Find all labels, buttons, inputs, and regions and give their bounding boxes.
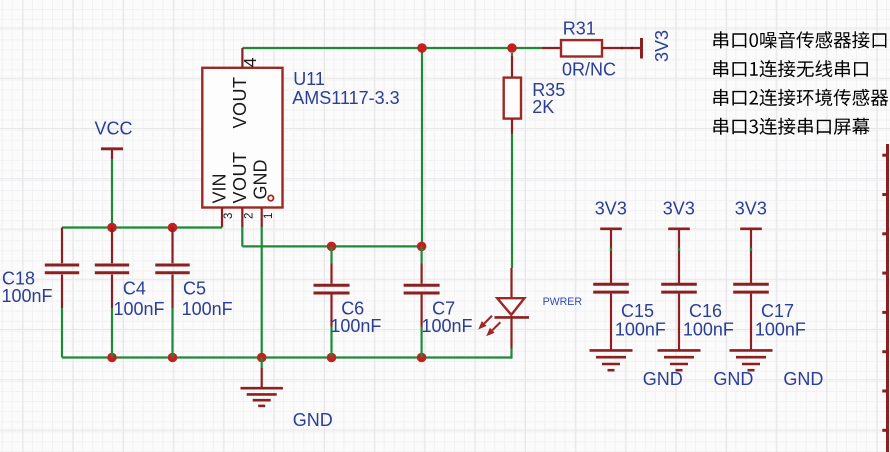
node junction GND rail / C5: [168, 353, 178, 363]
capacitor C15 value label: [615, 320, 666, 340]
LED light arrow 1: [478, 316, 492, 330]
capacitor C4 bottom wire: [111, 308, 113, 358]
wire VOUT horizontal (pin2 to C7): [242, 245, 421, 247]
capacitor C7 top wire: [421, 246, 423, 263]
resistor R35 reference label: [532, 80, 565, 100]
svg-text:100nF: 100nF: [683, 320, 734, 340]
connector body edge (right, partial): [882, 144, 887, 452]
capacitor C4 plates: [95, 265, 129, 273]
U11 reference designator: [293, 69, 325, 89]
resistor R31 left lead: [542, 47, 561, 49]
capacitor C4 value label: [114, 299, 165, 319]
wire input rail (VCC caps top): [62, 226, 222, 228]
node junction GND rail / C7: [417, 353, 427, 363]
svg-text:3V3: 3V3: [663, 199, 695, 219]
node junction input rail / C5: [168, 223, 178, 233]
node junction GND rail / C4: [107, 353, 117, 363]
node junction GND rail / C6: [327, 353, 337, 363]
net label GND (main): [293, 410, 333, 430]
capacitor C5 bottom lead: [171, 275, 173, 308]
svg-text:AMS1117-3.3: AMS1117-3.3: [292, 88, 399, 108]
U11 pin 3 number: [223, 213, 235, 219]
wire top 3V3 rail: [242, 47, 542, 49]
resistor R31 reference label: [563, 19, 596, 39]
capacitor C6 bottom wire: [330, 327, 332, 358]
capacitor C7 top lead: [421, 264, 423, 284]
capacitor C5 top lead: [171, 228, 173, 264]
capacitor C4 reference label: [123, 279, 146, 299]
LED triangle: [497, 298, 524, 315]
svg-text:100nF: 100nF: [114, 299, 165, 319]
net label 3V3 (C15): [595, 199, 627, 219]
node junction VOUT wire / C7: [417, 242, 427, 252]
svg-text:GND: GND: [293, 410, 333, 430]
power symbol 3V3 bar (C16): [668, 228, 690, 231]
svg-text:C17: C17: [761, 301, 794, 321]
capacitor C6 bottom lead: [330, 295, 332, 327]
text note line 3: 串口3连接串口屏幕: [713, 118, 869, 135]
svg-text:VOUT: VOUT: [230, 151, 250, 203]
ground symbol (main rail): [241, 358, 283, 406]
svg-text:3V3: 3V3: [652, 30, 672, 62]
svg-text:C4: C4: [123, 279, 146, 299]
wire LED bottom to GND rail: [510, 349, 512, 359]
capacitor C15 plates: [593, 284, 629, 292]
capacitor C15 reference label: [621, 301, 654, 321]
wire pin1 GND vertical: [261, 226, 263, 358]
U11 pin 3 lead: [221, 208, 223, 227]
ground symbol (C16): [658, 350, 701, 370]
svg-text:100nF: 100nF: [422, 316, 473, 336]
U11 pin 3 name VIN: [209, 173, 229, 203]
power symbol 3V3 bar (C15): [600, 228, 622, 231]
LED bottom lead: [510, 317, 512, 348]
capacitor C5 plates: [155, 265, 189, 273]
node junction input rail / C4: [107, 223, 117, 233]
IC U11 body (AMS1117-3.3 regulator): [202, 68, 282, 208]
svg-text:3: 3: [223, 213, 235, 219]
svg-text:0R/NC: 0R/NC: [562, 60, 616, 80]
svg-text:100nF: 100nF: [615, 320, 666, 340]
capacitor C6 value label: [330, 316, 381, 336]
ground symbol (C17): [730, 350, 773, 370]
resistor R35 top lead: [511, 53, 513, 78]
capacitor C5 reference label: [183, 279, 206, 299]
U11 pin 4 name VOUT: [230, 77, 250, 129]
svg-text:100nF: 100nF: [755, 320, 806, 340]
svg-text:C5: C5: [183, 279, 206, 299]
capacitor C6 top wire: [330, 246, 332, 263]
capacitor C17 top lead: [750, 229, 752, 283]
wire pin2 vertical: [241, 226, 243, 247]
resistor R31 body: [561, 40, 602, 56]
wire R35 to LED vertical: [511, 134, 513, 268]
wire vertical from top rail to C7 node: [421, 48, 423, 246]
LED light arrow 2: [486, 322, 500, 336]
capacitor C18 bottom wire: [61, 308, 63, 358]
resistor R35 bottom lead: [511, 119, 513, 134]
capacitor C5 bottom wire: [171, 308, 173, 358]
wire VCC vertical: [111, 159, 113, 228]
U11 pin 2 number: [244, 213, 256, 219]
resistor R35 value label: [532, 97, 554, 117]
svg-text:1: 1: [263, 213, 275, 219]
capacitor C7 reference label: [432, 299, 455, 319]
wire bottom GND rail: [62, 356, 512, 358]
capacitor C17 value label: [755, 320, 806, 340]
LED top lead: [510, 268, 512, 298]
net label VCC: [95, 119, 133, 139]
node junction VOUT wire / C6: [327, 242, 337, 252]
capacitor C16 plates: [661, 284, 697, 292]
net label 3V3 (C17): [735, 199, 767, 219]
capacitor C15 top lead: [610, 229, 612, 283]
svg-text:2: 2: [244, 213, 256, 219]
svg-text:100nF: 100nF: [182, 299, 233, 319]
node junction top rail / C7 branch: [417, 43, 427, 53]
capacitor C4 top lead: [111, 228, 113, 264]
svg-text:3V3: 3V3: [595, 199, 627, 219]
U11 pin 2 name VOUT: [230, 151, 250, 203]
power symbol 3V3 bar (C17): [740, 228, 762, 231]
resistor R35 body: [504, 78, 521, 119]
node junction GND rail / U11 GND: [257, 353, 267, 363]
svg-text:PWRER: PWRER: [543, 296, 583, 308]
capacitor C7 bottom wire: [421, 327, 423, 358]
capacitor C16 value label: [683, 320, 734, 340]
capacitor C18 plates: [45, 265, 79, 273]
capacitor C16 top lead: [678, 229, 680, 283]
capacitor C5 value label: [182, 299, 233, 319]
svg-text:100nF: 100nF: [330, 316, 381, 336]
capacitor C7 bottom lead: [421, 295, 423, 327]
svg-text:C15: C15: [621, 301, 654, 321]
U11 pin 4 lead: [241, 48, 243, 68]
U11 pin 2 lead: [241, 208, 243, 227]
text note line 1: 串口1连接无线串口: [713, 60, 868, 77]
net label GND (C17): [783, 369, 823, 389]
svg-text:VIN: VIN: [209, 173, 229, 203]
capacitor C17 bottom lead: [750, 294, 752, 351]
LED net label PWRER: [543, 296, 583, 308]
net label 3V3 (top right, rotated): [652, 30, 672, 62]
svg-text:GND: GND: [713, 369, 753, 389]
ground symbol (C15): [590, 350, 633, 370]
svg-text:GND: GND: [783, 369, 823, 389]
U11 pin 1 number: [263, 213, 275, 219]
U11 pin 1 lead: [261, 208, 263, 227]
text note line 0: 串口0噪音传感器接口: [713, 31, 886, 48]
capacitor C17 plates: [733, 284, 769, 292]
capacitor C18 value label: [2, 286, 53, 306]
net label GND (C16): [713, 369, 753, 389]
svg-text:4: 4: [240, 57, 260, 67]
svg-text:100nF: 100nF: [2, 286, 53, 306]
power symbol 3V3 (top right) bar: [640, 38, 643, 59]
capacitor C16 bottom lead: [678, 294, 680, 351]
resistor R31 value label: [562, 60, 616, 80]
svg-text:VCC: VCC: [95, 119, 133, 139]
resistor R31 pin end dots: [621, 47, 634, 50]
svg-text:VOUT: VOUT: [230, 77, 250, 129]
resistor R31 right lead: [602, 47, 640, 49]
svg-text:R31: R31: [563, 19, 596, 39]
svg-text:3V3: 3V3: [735, 199, 767, 219]
svg-text:C16: C16: [689, 301, 722, 321]
capacitor C6 plates: [314, 285, 350, 293]
capacitor C15 bottom lead: [610, 294, 612, 351]
node junction top rail / R35 branch: [507, 43, 517, 53]
U11 pin 1 name GND: [250, 160, 270, 200]
capacitor C7 value label: [422, 316, 473, 336]
svg-text:GND: GND: [250, 160, 270, 200]
U11 pin 4 number: [240, 57, 260, 67]
capacitor C6 top lead: [330, 264, 332, 284]
LED cathode bar: [495, 316, 530, 319]
U11 pin 1 indicator circle: [268, 195, 273, 200]
capacitor C17 reference label: [761, 301, 794, 321]
wire pin3 vertical: [221, 226, 223, 228]
capacitor C18 top lead: [61, 228, 63, 264]
power symbol VCC bar: [101, 149, 123, 159]
net label 3V3 (C16): [663, 199, 695, 219]
capacitor C6 reference label: [341, 299, 364, 319]
capacitor C16 reference label: [689, 301, 722, 321]
net label GND (C15): [643, 369, 683, 389]
svg-text:U11: U11: [293, 69, 325, 89]
capacitor C7 plates: [404, 285, 440, 293]
text note line 2: 串口2连接环境传感器: [713, 89, 888, 106]
capacitor C18 reference label: [2, 269, 35, 289]
capacitor C18 bottom lead: [61, 275, 63, 308]
svg-text:GND: GND: [643, 369, 683, 389]
U11 value AMS1117-3.3: [292, 88, 399, 108]
capacitor C4 bottom lead: [111, 275, 113, 308]
svg-text:2K: 2K: [532, 97, 554, 117]
